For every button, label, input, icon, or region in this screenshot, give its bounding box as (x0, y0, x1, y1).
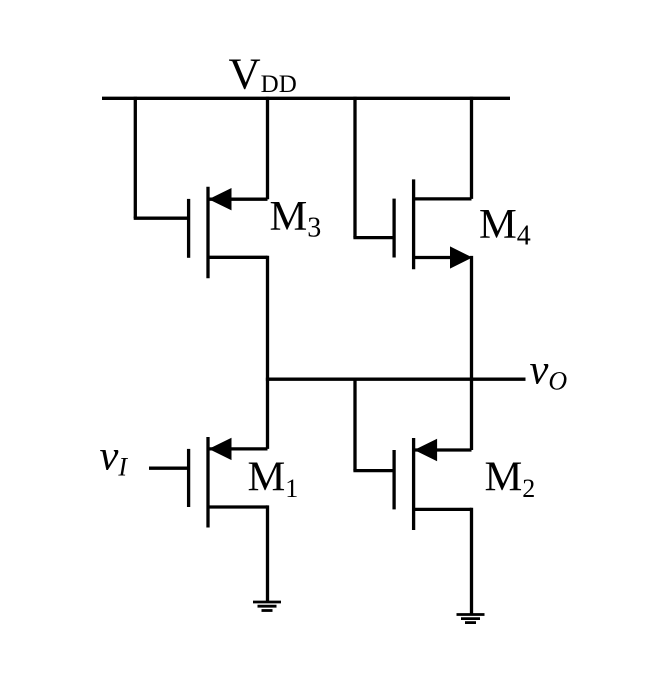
svg-text:vI: vI (100, 433, 129, 482)
transistor M1 (189, 437, 268, 528)
wire M3 drain down to output node (266, 256, 269, 381)
svg-text:M2: M2 (485, 454, 536, 504)
transistor M4 (394, 179, 471, 269)
wire M3 source to VDD (vertical) (266, 97, 269, 200)
svg-text:M4: M4 (479, 201, 531, 252)
wire vI gate lead (horizontal) (149, 467, 189, 470)
wire M4 drain down to output node (470, 256, 473, 381)
ground (right) (457, 615, 485, 623)
transistor M3 (189, 187, 268, 278)
wire M4 gate to VDD (vertical) (353, 97, 356, 238)
svg-text:vO: vO (530, 347, 568, 396)
net VDD rail wire (102, 97, 510, 100)
wire M2 gate lead (horizontal) (353, 469, 394, 472)
svg-text:VDD: VDD (229, 49, 297, 99)
wire M1 source down to ground (vertical) (266, 505, 269, 601)
wire M2 drain up to output node (vertical) (470, 378, 473, 450)
wire M4 source to VDD (vertical) (470, 97, 473, 199)
svg-text:M1: M1 (248, 453, 299, 503)
wire M3 gate to VDD (vertical) (134, 97, 137, 219)
wire M2 source down to ground (vertical) (470, 508, 473, 615)
node vO output wire (horizontal) (268, 378, 526, 381)
wire M4 gate lead (horizontal) (353, 236, 394, 239)
wire output node down to M1 drain (vertical) (266, 378, 269, 449)
wire M3 gate lead (horizontal) (134, 217, 189, 220)
transistor M2 (394, 438, 471, 530)
ground (left) (253, 602, 281, 611)
svg-text:M3: M3 (270, 193, 322, 244)
wire output node down to M2 gate (vertical) (353, 378, 356, 471)
